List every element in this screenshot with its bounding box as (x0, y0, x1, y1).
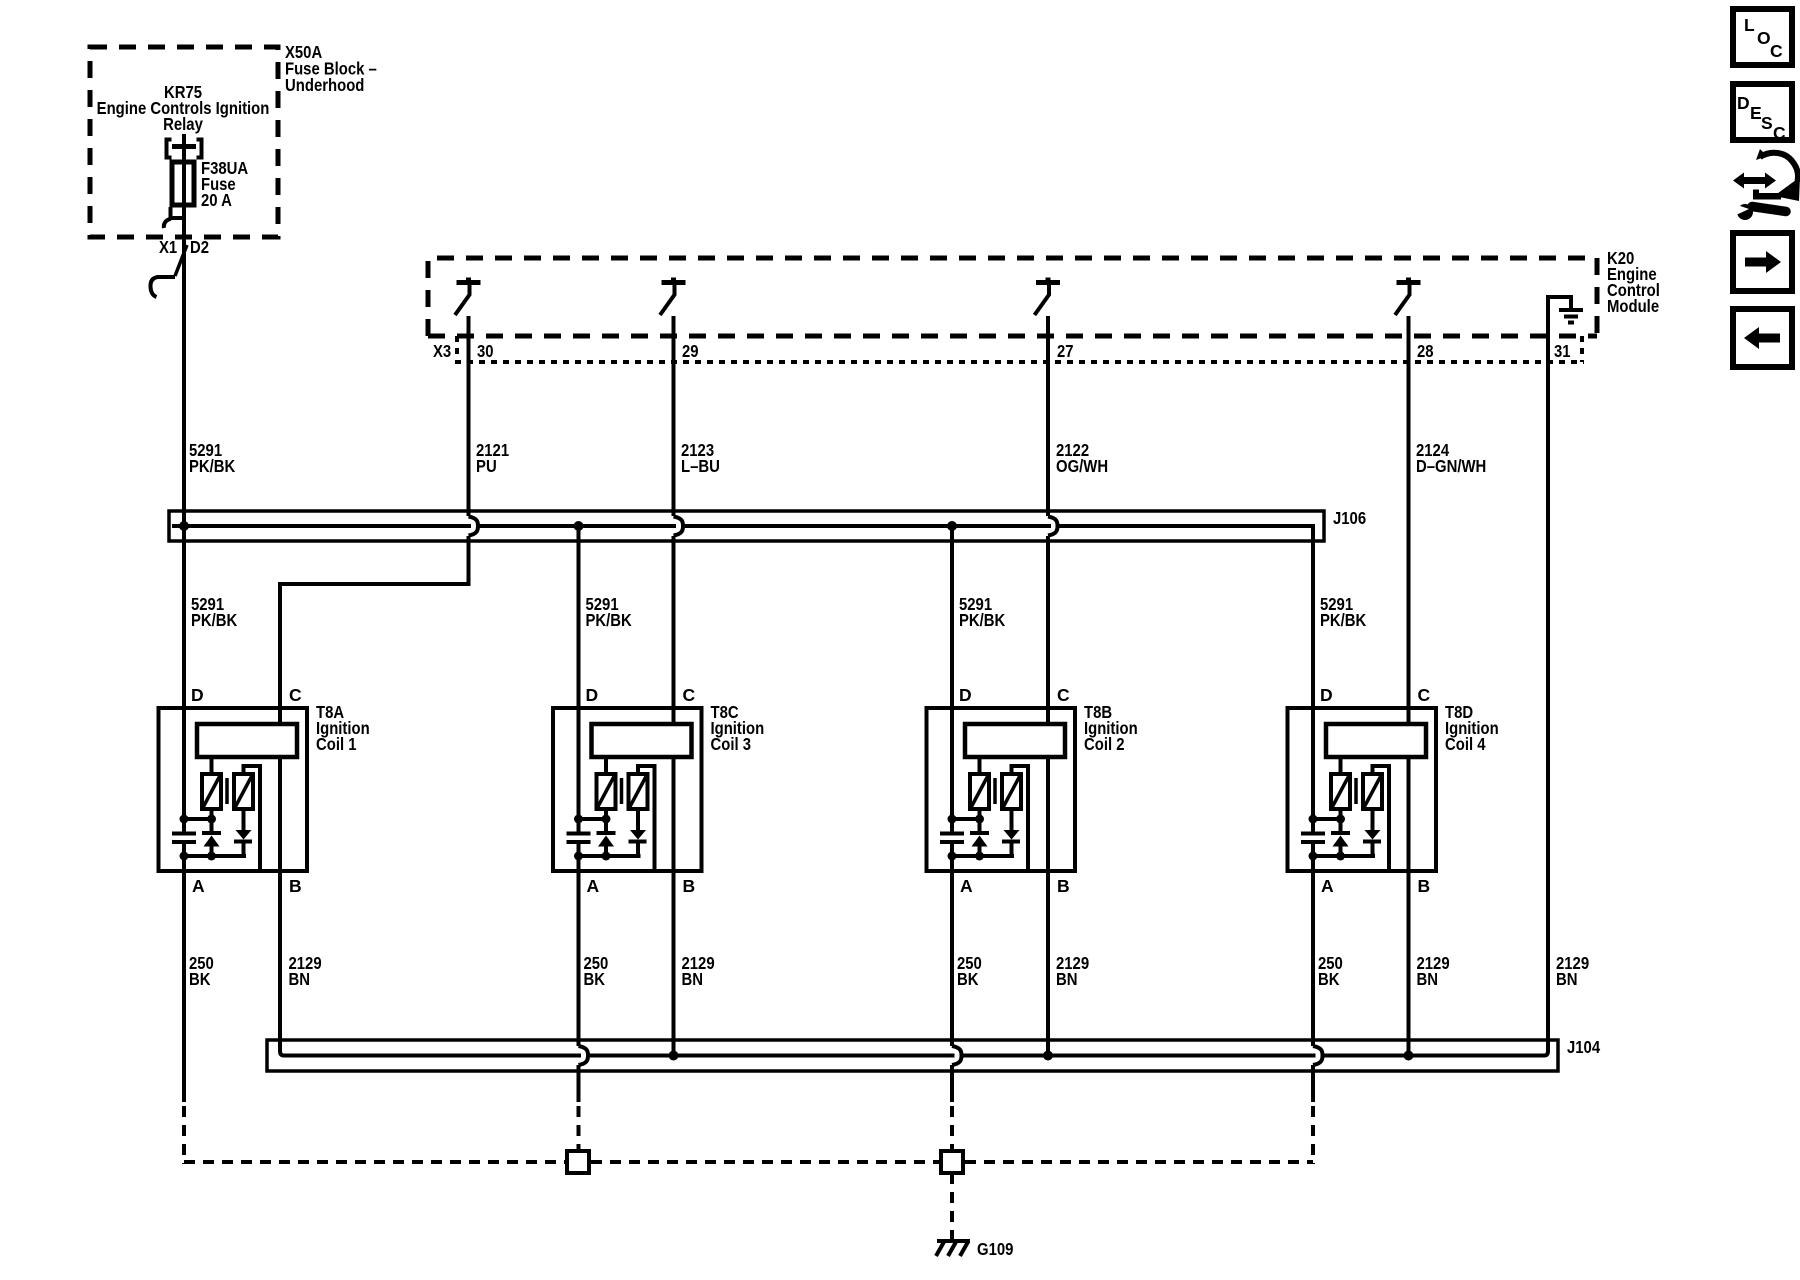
wire 2122 OG/WH from ECM pin 27 to coil T8B pin C (1048, 316, 1058, 724)
ignition coil T8A (Coil 1) (159, 685, 370, 896)
ground G109 symbol (936, 1230, 970, 1256)
bus J106 internal wire (172, 524, 1315, 528)
wire 2124 D-GN/WH from ECM pin 28 to coil T8D pin C (1407, 316, 1411, 724)
label T8B Ignition Coil (1084, 702, 1138, 754)
svg-text:29: 29 (682, 341, 699, 361)
svg-text:Module: Module (1607, 296, 1659, 316)
svg-text:X3: X3 (433, 341, 451, 361)
svg-text:D: D (959, 685, 972, 705)
label wire 2124 D-GN/WH (1416, 440, 1486, 476)
svg-text:A: A (960, 876, 973, 896)
coil T8C zener diode (597, 809, 616, 856)
label wire 5291 PK/BK (586, 594, 633, 630)
svg-text:PK/BK: PK/BK (959, 610, 1006, 630)
label wire 2129 BN (289, 953, 322, 989)
svg-text:C: C (1057, 685, 1070, 705)
label wire 2122 OG/WH (1056, 440, 1108, 476)
coil T8B capacitor (940, 834, 964, 843)
coil T8C bottom node wire (579, 854, 641, 858)
svg-text:PK/BK: PK/BK (189, 456, 236, 476)
label wire 250 BK (189, 953, 214, 989)
svg-text:BK: BK (189, 969, 211, 989)
junction dot bus J106 / T8C feed (574, 521, 584, 531)
coil T8D capacitor (1301, 834, 1325, 843)
coil T8D core bar (1354, 778, 1358, 804)
icon forward arrow box (1733, 233, 1792, 291)
label wire 5291 PK/BK (feed) (189, 440, 236, 476)
junction dot bus J104 / T8D B (1404, 1051, 1414, 1061)
coil T8D zener diode (1331, 809, 1350, 856)
coil T8C outer box (553, 708, 702, 871)
bus J104 internal wire (284, 1054, 1544, 1058)
bus J104 outline (267, 1040, 1558, 1071)
coil T8A outer box (159, 708, 308, 871)
svg-text:G109: G109 (977, 1239, 1014, 1259)
svg-text:BK: BK (1318, 969, 1340, 989)
label wire 250 BK (957, 953, 982, 989)
coil T8A secondary winding (234, 774, 253, 809)
svg-text:L–BU: L–BU (681, 456, 720, 476)
wire 2121 PU from ECM pin 30 to coil T8A pin C (with hop over J106 and jog left) (280, 316, 478, 724)
label wire 250 BK (1318, 953, 1343, 989)
svg-text:PK/BK: PK/BK (191, 610, 238, 630)
svg-text:O: O (1757, 28, 1771, 48)
coil T8D bottom node wire (1313, 854, 1375, 858)
svg-text:PU: PU (476, 456, 497, 476)
svg-text:Relay: Relay (163, 114, 203, 134)
ECM K20 dashed box (428, 258, 1597, 336)
svg-text:D: D (1737, 93, 1750, 113)
svg-text:30: 30 (477, 341, 494, 361)
fuse F38UA symbol (172, 162, 194, 205)
svg-text:Coil 2: Coil 2 (1084, 734, 1125, 754)
svg-text:D–GN/WH: D–GN/WH (1416, 456, 1486, 476)
label KR75 Engine Controls Ignition Relay (97, 82, 270, 134)
wire 250 BK from coil T8A pin A (solid then dashed) (182, 842, 186, 1164)
wire 5291 PK/BK from bus J106 to coil T8D pin D (1311, 526, 1315, 834)
wire 250 BK from coil T8C pin A (hops over J104, then dashed to splice) (579, 842, 589, 1151)
svg-text:C: C (1418, 685, 1431, 705)
splice (T8C ground) (567, 1151, 589, 1173)
coil T8A core bar (225, 778, 229, 804)
ECM coil driver (switch) for pin 29 (660, 278, 686, 316)
wire 2129 BN from ECM pin 31 down to bus J104 (1544, 316, 1548, 1056)
relay KR75 contact symbol (167, 140, 202, 158)
ignition coil T8D (Coil 4) (1288, 526, 1499, 896)
label wire 5291 PK/BK (1320, 594, 1367, 630)
coil T8D module rectangle (1326, 724, 1426, 757)
coil T8C secondary winding (629, 774, 648, 809)
svg-text:BK: BK (584, 969, 606, 989)
svg-text:B: B (1418, 876, 1431, 896)
svg-text:C: C (1773, 123, 1786, 143)
ECM coil driver (switch) for pin 30 (455, 278, 481, 316)
inline connector break slash and terminal hook (150, 245, 187, 297)
label T8A Ignition Coil (316, 702, 370, 754)
svg-text:B: B (1057, 876, 1070, 896)
svg-text:Coil 1: Coil 1 (316, 734, 357, 754)
svg-text:OG/WH: OG/WH (1056, 456, 1108, 476)
coil T8B core bar (993, 778, 997, 804)
connector X3 band (455, 336, 1584, 362)
coil T8D primary winding (1331, 757, 1350, 809)
coil T8C diode (629, 809, 647, 856)
connector X1 / D2 labels (159, 237, 209, 257)
label wire 2123 L-BU (681, 440, 720, 476)
coil T8C core bar (620, 778, 624, 804)
svg-text:BK: BK (957, 969, 979, 989)
svg-text:A: A (192, 876, 205, 896)
splice (T8B ground) (941, 1151, 963, 1173)
label T8D Ignition Coil (1445, 702, 1499, 754)
svg-text:Underhood: Underhood (285, 75, 364, 95)
coil T8C capacitor (567, 834, 591, 843)
icon back arrow box (1733, 309, 1792, 367)
coil T8C primary winding (597, 757, 616, 809)
label F38UA Fuse 20 A (201, 158, 249, 210)
svg-text:BN: BN (1556, 969, 1578, 989)
wire 5291 feed from relay through fuse down to coil T8A pin D (182, 134, 186, 834)
wire 2123 L-BU from ECM pin 29 to coil T8C pin C (674, 316, 684, 724)
svg-text:20 A: 20 A (201, 190, 232, 210)
ECM internal ground at pin 31 (1548, 297, 1583, 338)
wire 2129 BN from coil T8C pin B to bus J104 (672, 757, 676, 1056)
icon LOC box (1733, 9, 1792, 65)
svg-text:28: 28 (1417, 341, 1434, 361)
dashed wire from splice to ground G109 (950, 1173, 954, 1232)
coil T8A capacitor (172, 834, 196, 843)
coil T8A zener diode (202, 809, 221, 856)
coil T8B primary winding (970, 757, 989, 809)
bus J106 outline (169, 511, 1324, 541)
svg-text:C: C (289, 685, 302, 705)
wire 2129 BN from coil T8A pin B into bus J104 (280, 757, 284, 1056)
label wire 5291 PK/BK (959, 594, 1006, 630)
coil T8A diode (234, 809, 252, 856)
coil T8B bottom node wire (952, 854, 1014, 858)
coil T8B zener diode (970, 809, 989, 856)
svg-text:31: 31 (1554, 341, 1571, 361)
ignition coil T8B (Coil 2) (927, 526, 1138, 896)
coil T8B module rectangle (965, 724, 1065, 757)
junction dot bus J106 / T8B feed (947, 521, 957, 531)
coil T8C secondary output to case (638, 766, 655, 871)
dashed ground wire horizontal run (184, 1160, 1313, 1164)
svg-text:BN: BN (1056, 969, 1078, 989)
wire 5291 PK/BK from bus J106 to coil T8B pin D (950, 526, 954, 834)
pin number labels (477, 341, 1571, 361)
svg-text:D: D (191, 685, 204, 705)
svg-text:C: C (1770, 41, 1783, 61)
label T8C Ignition Coil (711, 702, 765, 754)
junction dot bus J104 / T8C B (669, 1051, 679, 1061)
coil T8B secondary output to case (1012, 766, 1029, 871)
ignition coil T8C (Coil 3) (553, 526, 764, 896)
label wire 2129 BN (1056, 953, 1089, 989)
svg-text:BN: BN (682, 969, 704, 989)
label wire 2129 BN (682, 953, 715, 989)
svg-text:J104: J104 (1567, 1037, 1600, 1057)
coil T8A internal node wire (184, 817, 212, 821)
svg-text:PK/BK: PK/BK (586, 610, 633, 630)
coil T8D secondary output to case (1373, 766, 1390, 871)
coil T8A secondary output to case (244, 766, 261, 871)
coil T8B outer box (927, 708, 1076, 871)
coil T8A bottom node wire (184, 854, 246, 858)
connector terminal hook below fuse (164, 207, 184, 228)
coil T8D secondary winding (1363, 774, 1382, 809)
svg-text:C: C (683, 685, 696, 705)
svg-text:PK/BK: PK/BK (1320, 610, 1367, 630)
coil T8A primary winding (202, 757, 221, 809)
coil T8D diode (1363, 809, 1381, 856)
label wire 5291 PK/BK (191, 594, 238, 630)
wire 250 BK from coil T8B pin A (hops over J104, then dashed to splice) (952, 842, 962, 1151)
svg-text:BN: BN (1417, 969, 1439, 989)
svg-text:L: L (1744, 15, 1755, 35)
coil T8B secondary winding (1002, 774, 1021, 809)
ECM coil driver (switch) for pin 27 (1035, 278, 1061, 316)
label wire 250 BK (584, 953, 609, 989)
svg-text:D: D (586, 685, 599, 705)
wire 2129 BN from coil T8D pin B to bus J104 (1407, 757, 1411, 1056)
svg-text:BN: BN (289, 969, 311, 989)
label wire 2129 BN (ECM ground) (1556, 953, 1589, 989)
coil T8D outer box (1288, 708, 1437, 871)
label K20 Engine Control Module (1607, 248, 1660, 316)
svg-text:D: D (1320, 685, 1333, 705)
ECM coil driver (switch) for pin 28 (1395, 278, 1421, 316)
coil T8B diode (1002, 809, 1020, 856)
label X50A Fuse Block - Underhood (285, 42, 377, 95)
svg-text:A: A (587, 876, 600, 896)
svg-text:B: B (683, 876, 696, 896)
icon schematic reroute arrows and wrench (1733, 149, 1800, 220)
svg-text:S: S (1761, 113, 1773, 133)
svg-text:A: A (1321, 876, 1334, 896)
svg-text:27: 27 (1057, 341, 1074, 361)
wire 2129 BN from coil T8B pin B to bus J104 (1046, 757, 1050, 1056)
junction dot bus J106 / feed wire (179, 521, 189, 531)
svg-text:D2: D2 (190, 237, 209, 257)
coil T8C module rectangle (592, 724, 692, 757)
coil T8B internal node wire (952, 817, 980, 821)
svg-text:E: E (1750, 103, 1762, 123)
wire 250 BK from coil T8D pin A (hops over J104, then dashed) (1313, 842, 1323, 1164)
svg-text:X1: X1 (159, 237, 177, 257)
svg-text:Coil 4: Coil 4 (1445, 734, 1486, 754)
coil T8A module rectangle (197, 724, 297, 757)
svg-text:B: B (289, 876, 302, 896)
label wire 2121 PU (476, 440, 509, 476)
fuse block X50A dashed box (90, 47, 278, 237)
svg-text:J106: J106 (1333, 508, 1366, 528)
coil T8C internal node wire (579, 817, 607, 821)
junction dot bus J104 / T8B B (1043, 1051, 1053, 1061)
label wire 2129 BN (1417, 953, 1450, 989)
wire 5291 PK/BK from bus J106 to coil T8C pin D (577, 526, 581, 834)
coil T8D internal node wire (1313, 817, 1341, 821)
icon DESC box (1733, 84, 1792, 143)
svg-text:Coil 3: Coil 3 (711, 734, 752, 754)
